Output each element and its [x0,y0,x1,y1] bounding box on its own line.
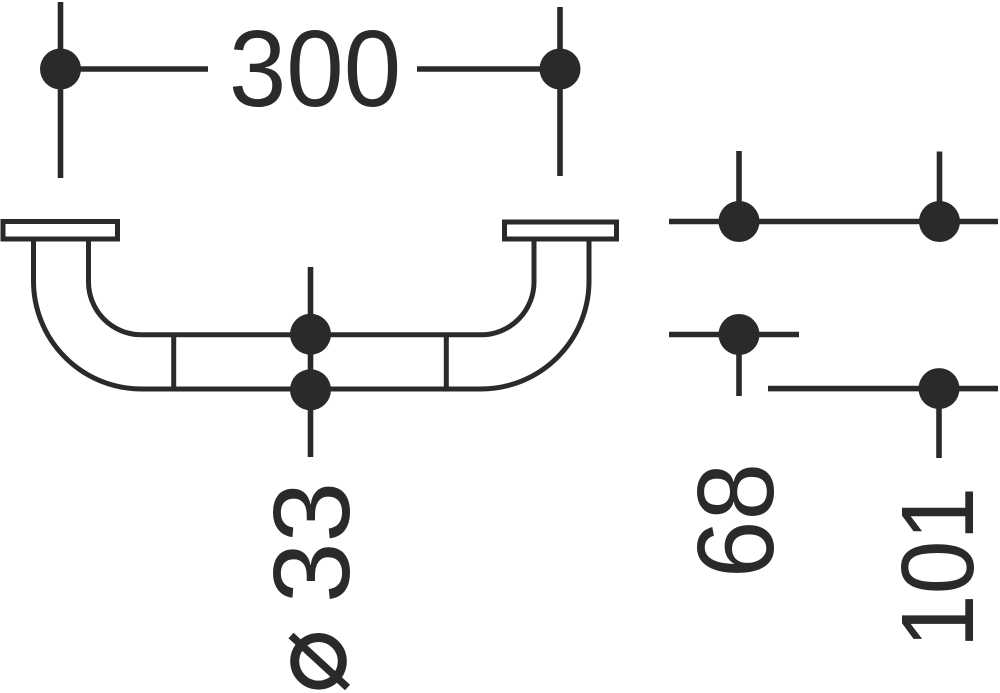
joint line left [171,335,176,389]
dim 300 line right segment [417,66,560,72]
dim 300 dot left [40,49,81,90]
dim 68 line [669,332,799,338]
wall dim line top right [669,219,998,225]
dim line O33 vertical [308,267,314,457]
grab bar tube inner outline [88,242,534,335]
wall dim tick above dot A [736,151,742,222]
dim 300 extension line left [58,2,64,178]
wall dim dot A [719,201,760,242]
right wall flange [505,222,617,239]
dim 68 dot [719,314,760,355]
svg-text:101: 101 [881,487,995,649]
dim 300 dot right [540,49,581,90]
wall dim tick above dot B [937,152,943,222]
grab bar tube outer outline [34,242,590,390]
dim 101 tick [936,389,942,458]
dim 68 tick [736,335,742,397]
left wall flange [3,222,118,240]
svg-text:300: 300 [229,8,401,129]
dim O33 dot upper [290,314,331,355]
dim O33 dot lower [290,369,331,410]
joint line right [444,335,449,389]
wall dim dot B [919,201,960,242]
dim 300 line left segment [61,66,209,72]
svg-text:33: 33 [251,482,373,603]
dim 300 extension line right [557,7,563,176]
diameter symbol slash [291,636,348,688]
svg-text:68: 68 [675,463,797,578]
dim 101 dot [919,368,960,409]
diameter symbol circle [295,638,343,686]
dim 101 line [768,386,998,392]
